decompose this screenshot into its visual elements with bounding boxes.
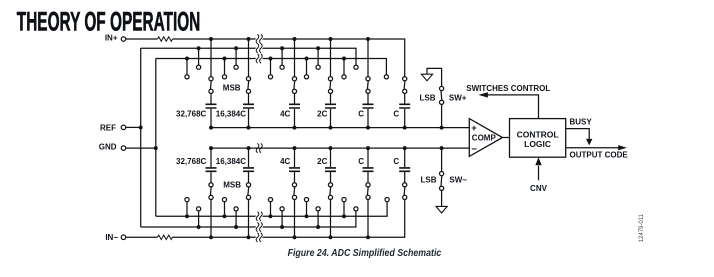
switch lever top bit5 <box>366 81 369 89</box>
junction rail GND top bit2 <box>223 57 227 61</box>
control logic box U1 <box>510 119 566 158</box>
wire switch to rail bottom bit1 <box>210 200 212 238</box>
svg-text:REF: REF <box>100 124 116 133</box>
wire REF contact stub bottom bit3 <box>281 211 283 227</box>
junction rail IN+ top bit3 <box>293 37 297 41</box>
wire common to cap bottom bit5 <box>367 148 369 167</box>
junction REF trunk <box>139 125 143 129</box>
switch pole top bit6 <box>403 77 407 81</box>
svg-text:+: + <box>471 123 477 134</box>
svg-text:SW+: SW+ <box>449 93 467 102</box>
junction rail GND top bit5 <box>342 57 346 61</box>
switch contact GND bottom bit4 <box>304 198 308 202</box>
junction common rail bottom bit3 <box>293 146 297 150</box>
junction rail REF top bit4 <box>316 46 320 50</box>
break mark rail GND top <box>256 54 262 63</box>
wire switch to rail bottom bit4 <box>330 200 332 238</box>
svg-text:2C: 2C <box>317 157 327 166</box>
junction rail REF top bit2 <box>234 46 238 50</box>
svg-text:SWITCHES CONTROL: SWITCHES CONTROL <box>466 84 550 93</box>
wire cap to common top bit3 <box>294 109 296 128</box>
wire rail REF bottom <box>141 211 356 227</box>
junction rail GND bottom bit3 <box>269 214 273 218</box>
switch pole bottom bit4 <box>328 183 332 187</box>
junction common rail top bit1 <box>209 126 213 130</box>
junction common bottom LSB switch <box>440 146 444 150</box>
switch throw bottom bit1 <box>209 195 213 199</box>
junction common top LSB switch <box>440 126 444 130</box>
junction common rail bottom bit6 <box>403 146 407 150</box>
switch throw top bit5 <box>366 89 370 93</box>
switch pole top bit4 <box>328 77 332 81</box>
resistor R IN+ <box>158 37 173 41</box>
wire cap to common top bit1 <box>210 109 212 128</box>
wire cap to switch bottom bit3 <box>294 172 296 183</box>
switch contact REF bottom bit1 <box>197 207 201 211</box>
switch contact REF top bit4 <box>316 65 320 69</box>
wire to cap top bit1 <box>210 94 212 104</box>
junction rail GND top bit1 <box>185 57 189 61</box>
svg-text:MSB: MSB <box>223 181 241 190</box>
wire REF contact stub top bit4 <box>317 48 319 65</box>
capacitor 32,768C bottom <box>206 168 217 171</box>
switch pole bottom bit2 <box>246 183 250 187</box>
svg-text:2C: 2C <box>317 110 327 119</box>
svg-text:16,384C: 16,384C <box>216 110 246 119</box>
wire cap to common top bit2 <box>248 109 250 128</box>
wire GND terminal <box>126 147 156 149</box>
wire GND trunk vertical <box>155 59 157 217</box>
switch contact REF top bit1 <box>197 65 201 69</box>
wire common to cap bottom bit4 <box>330 148 332 167</box>
terminal IN+ <box>121 37 126 42</box>
svg-text:LSB: LSB <box>421 175 437 184</box>
wire GND contact stub bottom bit3 <box>270 202 272 216</box>
switch contact REF top bit5 <box>354 65 358 69</box>
switch pole top bit2 <box>246 77 250 81</box>
ground SW+ <box>421 74 432 81</box>
switch lever top bit3 <box>293 81 296 89</box>
switch contact GND bottom bit3 <box>268 198 272 202</box>
switch contact GND top bit1 <box>185 75 189 79</box>
wire common to cap bottom bit3 <box>294 148 296 167</box>
switch throw top bit2 <box>246 89 250 93</box>
wire REF trunk vertical <box>140 48 142 227</box>
wire REF contact stub top bit3 <box>281 48 283 65</box>
wire rail IN- bottom <box>173 200 405 238</box>
wire switch to rail bottom bit5 <box>367 200 369 238</box>
junction common rail bottom bit4 <box>329 146 333 150</box>
wire SW+ to ground <box>427 68 442 86</box>
wire comparator to control logic <box>503 137 510 139</box>
switch contact GND top bit4 <box>304 75 308 79</box>
junction common rail top bit3 <box>293 126 297 130</box>
svg-text:THEORY OF OPERATION: THEORY OF OPERATION <box>17 5 201 36</box>
wire cap to switch bottom bit2 <box>248 172 250 183</box>
wire switch to rail bottom bit2 <box>248 200 250 238</box>
resistor R IN- <box>158 235 173 239</box>
svg-text:MSB: MSB <box>223 84 241 93</box>
svg-text:LSB: LSB <box>420 93 436 102</box>
wire rail GND top <box>156 59 387 75</box>
op-amp comparator COMP <box>469 119 502 157</box>
junction rail GND bottom bit4 <box>305 214 309 218</box>
junction common rail bottom bit1 <box>209 146 213 150</box>
junction rail IN- bottom bit4 <box>329 235 333 239</box>
switch pole top bit5 <box>366 77 370 81</box>
switch pole SW- <box>440 172 444 176</box>
svg-text:4C: 4C <box>280 157 290 166</box>
junction rail GND top bit3 <box>269 57 273 61</box>
svg-text:32,768C: 32,768C <box>176 110 206 119</box>
break mark rail GND bottom <box>256 212 262 221</box>
switch lever top bit4 <box>329 81 332 89</box>
switch contact REF bottom bit2 <box>234 207 238 211</box>
svg-text:−: − <box>471 144 477 155</box>
switch contact GND bottom bit1 <box>185 198 189 202</box>
svg-text:Figure 24. ADC Simplified Sche: Figure 24. ADC Simplified Schematic <box>288 248 442 259</box>
switch throw bottom bit6 <box>403 195 407 199</box>
wire switch drop top bit5 <box>367 39 369 77</box>
capacitor C top <box>399 104 410 108</box>
switch pole top bit3 <box>292 77 296 81</box>
wire switch to rail bottom bit3 <box>294 200 296 238</box>
switch contact GND bottom bit5 <box>342 198 346 202</box>
switch contact REF bottom bit4 <box>316 207 320 211</box>
terminal REF <box>121 125 126 129</box>
capacitor C bottom <box>363 168 374 171</box>
wire switch drop top bit1 <box>210 39 212 77</box>
wire to cap top bit4 <box>330 94 332 104</box>
switch lever SW- <box>440 176 443 186</box>
break mark rail IN+ top <box>256 34 262 43</box>
switch throw bottom bit3 <box>292 195 296 199</box>
svg-text:4C: 4C <box>280 110 290 119</box>
svg-text:IN−: IN− <box>105 233 118 242</box>
wire cap to switch bottom bit6 <box>404 172 406 183</box>
junction GND trunk <box>154 146 158 150</box>
wire to cap top bit3 <box>294 94 296 104</box>
switch contact GND top bit6 <box>384 75 388 79</box>
capacitor 16,384C bottom <box>243 168 254 171</box>
switch pole top bit1 <box>209 77 213 81</box>
capacitor 2C top <box>325 104 336 108</box>
switch throw SW- <box>440 186 444 190</box>
switch lever bottom bit1 <box>209 187 212 195</box>
capacitor 2C bottom <box>325 168 336 171</box>
junction rail GND bottom bit1 <box>185 214 189 218</box>
switch pole bottom bit6 <box>403 183 407 187</box>
switch lever top bit1 <box>209 81 212 89</box>
wire rail REF top <box>141 48 356 65</box>
switch contact REF top bit3 <box>280 65 284 69</box>
wire cap to switch bottom bit1 <box>210 172 212 183</box>
ground SW- <box>436 206 447 213</box>
wire to cap top bit6 <box>404 94 406 104</box>
wire REF terminal <box>126 126 141 128</box>
break mark rail REF top <box>256 44 262 53</box>
arrowhead BUSY <box>586 139 592 146</box>
switch throw bottom bit2 <box>246 195 250 199</box>
switch contact GND top bit3 <box>268 75 272 79</box>
svg-text:CONTROL: CONTROL <box>517 129 559 139</box>
wire GND contact stub top bit5 <box>343 59 345 75</box>
wire OUTPUT CODE <box>566 147 620 149</box>
wire SW+ riser <box>441 105 443 128</box>
switch contact GND top bit2 <box>222 75 226 79</box>
switch throw top bit6 <box>403 89 407 93</box>
wire SW- riser <box>441 148 443 171</box>
wire GND contact stub bottom bit2 <box>224 202 226 216</box>
junction rail IN+ top bit2 <box>247 37 251 41</box>
svg-text:C: C <box>393 157 399 166</box>
wire switch drop top bit2 <box>248 39 250 77</box>
wire GND contact stub top bit1 <box>186 59 188 75</box>
wire common to cap bottom bit1 <box>210 148 212 167</box>
svg-text:GND: GND <box>99 143 117 152</box>
switch throw bottom bit4 <box>328 195 332 199</box>
junction rail REF bottom bit1 <box>197 225 201 229</box>
switch throw top bit3 <box>292 89 296 93</box>
wire common rail bottom <box>211 147 469 149</box>
svg-text:CNV: CNV <box>530 184 548 193</box>
svg-text:12479-011: 12479-011 <box>639 213 645 242</box>
junction rail IN+ top bit1 <box>209 37 213 41</box>
junction rail REF top bit3 <box>280 46 284 50</box>
wire CNV <box>538 166 540 181</box>
switch pole bottom bit3 <box>292 183 296 187</box>
junction rail IN- bottom bit5 <box>366 235 370 239</box>
switch lever bottom bit3 <box>293 187 296 195</box>
wire switch drop top bit4 <box>330 39 332 77</box>
wire switch drop top bit3 <box>294 39 296 77</box>
switch lever bottom bit6 <box>403 187 406 195</box>
capacitor 32,768C top <box>206 104 217 108</box>
svg-text:IN+: IN+ <box>105 33 118 42</box>
switch lever bottom bit4 <box>329 187 332 195</box>
wire BUSY <box>566 129 590 140</box>
switch contact REF bottom bit5 <box>354 207 358 211</box>
switch lever SW+ <box>440 91 443 100</box>
switch contact GND top bit5 <box>342 75 346 79</box>
junction rail REF bottom bit2 <box>234 225 238 229</box>
svg-text:OUTPUT CODE: OUTPUT CODE <box>570 150 629 159</box>
wire SW- to ground <box>441 191 443 207</box>
wire rail IN+ top <box>173 39 405 77</box>
wire switches control <box>483 95 539 119</box>
switch throw top bit4 <box>328 89 332 93</box>
wire GND contact stub top bit3 <box>270 59 272 75</box>
wire common to cap bottom bit6 <box>404 148 406 167</box>
junction common rail top bit6 <box>403 126 407 130</box>
switch throw SW+ <box>440 86 444 90</box>
svg-text:COMP: COMP <box>472 133 497 142</box>
wire to cap top bit5 <box>367 94 369 104</box>
break mark common rail bottom <box>256 143 262 152</box>
wire REF contact stub top bit1 <box>198 48 200 65</box>
switch pole SW+ <box>440 100 444 104</box>
junction common rail top bit4 <box>329 126 333 130</box>
capacitor 4C bottom <box>289 168 300 171</box>
wire cap to common top bit4 <box>330 109 332 128</box>
svg-text:C: C <box>393 110 399 119</box>
junction common rail bottom bit2 <box>247 146 251 150</box>
wire IN+ to resistor <box>126 38 158 40</box>
switch lever top bit2 <box>247 81 250 89</box>
junction rail IN- bottom bit3 <box>293 235 297 239</box>
wire GND contact stub bottom bit4 <box>306 202 308 216</box>
wire to cap top bit2 <box>248 94 250 104</box>
capacitor 16,384C top <box>243 104 254 108</box>
terminal IN- <box>121 235 126 240</box>
wire REF contact stub bottom bit1 <box>198 211 200 227</box>
switch throw bottom bit5 <box>366 195 370 199</box>
wire IN- to resistor <box>126 236 158 238</box>
wire GND contact stub bottom bit1 <box>186 202 188 216</box>
switch contact GND bottom bit2 <box>222 198 226 202</box>
wire common rail top <box>211 127 469 129</box>
wire GND contact stub bottom bit5 <box>343 202 345 216</box>
switch lever bottom bit5 <box>366 187 369 195</box>
break mark rail IN- bottom <box>256 233 262 242</box>
junction rail GND top bit4 <box>305 57 309 61</box>
junction rail REF bottom bit4 <box>316 225 320 229</box>
switch throw top bit1 <box>209 89 213 93</box>
wire REF contact stub bottom bit2 <box>235 211 237 227</box>
terminal GND <box>121 146 126 151</box>
wire cap to switch bottom bit5 <box>367 172 369 183</box>
svg-text:16,384C: 16,384C <box>216 157 246 166</box>
wire rail GND bottom <box>156 202 387 216</box>
wire cap to common top bit5 <box>367 109 369 128</box>
break mark rail REF bottom <box>256 222 262 231</box>
wire GND contact stub top bit2 <box>224 59 226 75</box>
junction rail GND bottom bit2 <box>223 214 227 218</box>
switch lever bottom bit2 <box>247 187 250 195</box>
arrowhead OUTPUT CODE <box>618 145 627 150</box>
wire GND contact stub top bit4 <box>306 59 308 75</box>
junction rail REF bottom bit3 <box>280 225 284 229</box>
switch pole bottom bit1 <box>209 183 213 187</box>
svg-text:C: C <box>358 110 364 119</box>
wire cap to switch bottom bit4 <box>330 172 332 183</box>
junction common rail top bit5 <box>366 126 370 130</box>
junction common rail bottom bit5 <box>366 146 370 150</box>
svg-text:BUSY: BUSY <box>570 117 593 126</box>
junction rail IN- bottom bit2 <box>247 235 251 239</box>
wire REF contact stub bottom bit4 <box>317 211 319 227</box>
svg-text:C: C <box>358 157 364 166</box>
wire common to cap bottom bit2 <box>248 148 250 167</box>
svg-text:32,768C: 32,768C <box>176 157 206 166</box>
junction rail IN- bottom bit1 <box>209 235 213 239</box>
junction rail IN+ top bit5 <box>366 37 370 41</box>
junction common rail top bit2 <box>247 126 251 130</box>
junction rail IN+ top bit4 <box>329 37 333 41</box>
arrowhead switches control <box>478 92 488 97</box>
capacitor 4C top <box>289 104 300 108</box>
capacitor C top <box>363 104 374 108</box>
svg-text:SW−: SW− <box>449 176 467 185</box>
switch contact GND bottom bit6 <box>385 198 389 202</box>
arrowhead CNV <box>535 157 541 165</box>
switch pole bottom bit5 <box>366 183 370 187</box>
wire REF contact stub top bit2 <box>235 48 237 65</box>
svg-text:LOGIC: LOGIC <box>524 139 551 149</box>
junction rail REF top bit1 <box>197 46 201 50</box>
switch contact REF bottom bit3 <box>280 207 284 211</box>
capacitor C bottom <box>399 168 410 171</box>
wire cap to common top bit6 <box>404 109 406 128</box>
switch lever top bit6 <box>403 81 406 89</box>
switch contact REF top bit2 <box>234 65 238 69</box>
junction rail GND bottom bit5 <box>342 214 346 218</box>
